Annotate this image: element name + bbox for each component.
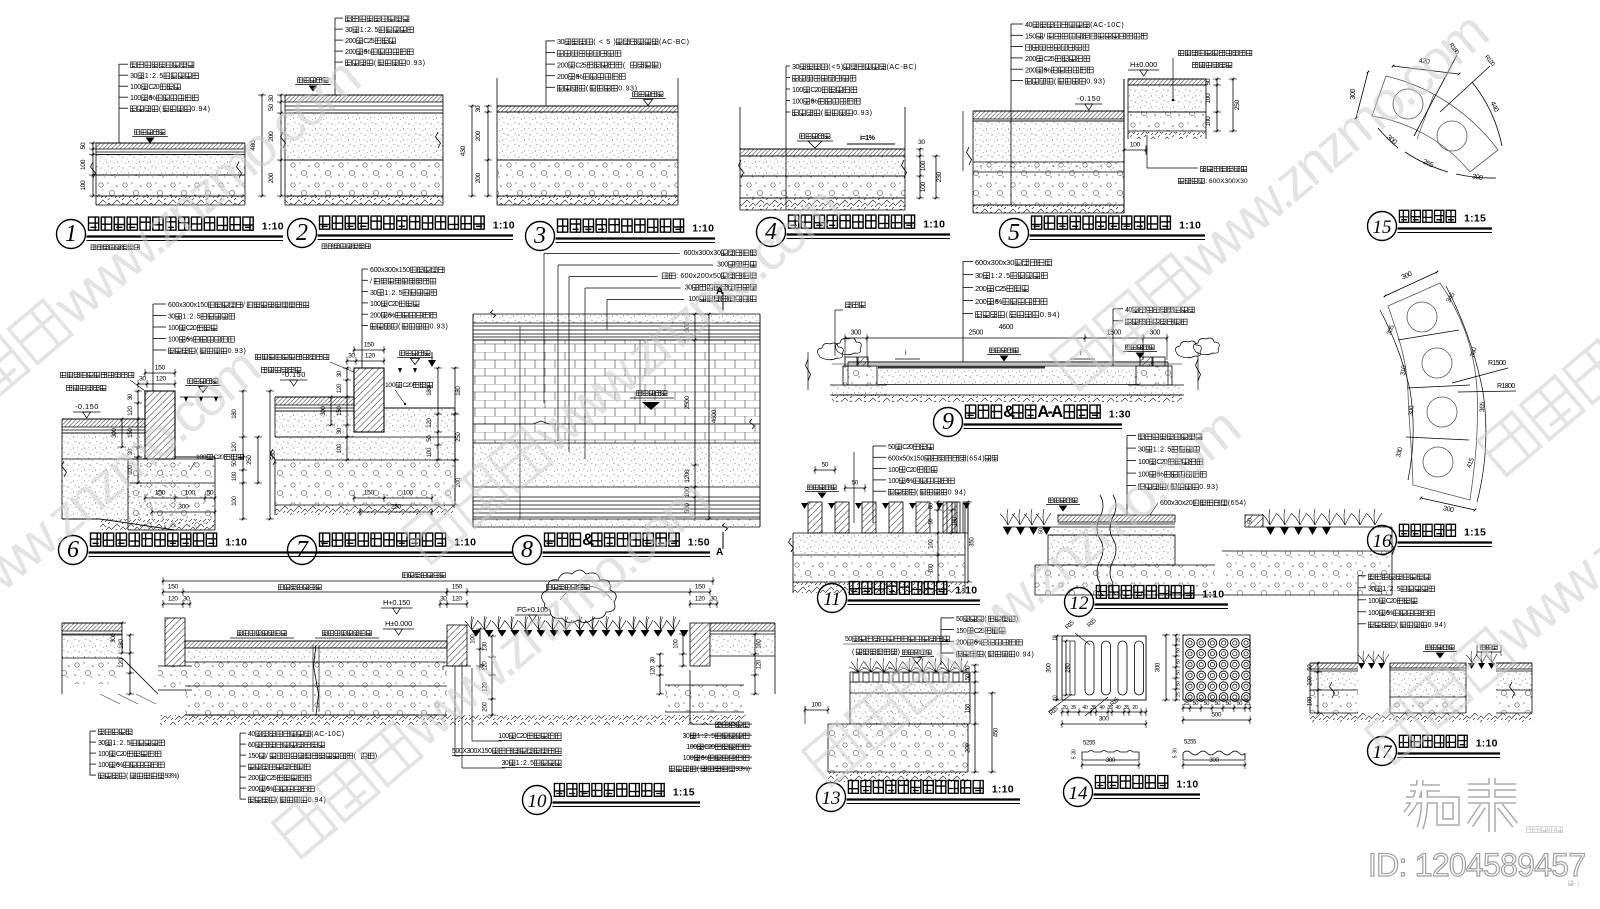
svg-text:100: 100	[792, 97, 803, 106]
svg-text:): )	[659, 60, 661, 69]
svg-text:200: 200	[345, 36, 356, 45]
svg-text:300: 300	[1045, 663, 1052, 673]
svg-text:1:10: 1:10	[692, 223, 714, 235]
svg-text:350: 350	[969, 537, 975, 547]
detail 7 right dim chains	[437, 368, 439, 460]
svg-text:50: 50	[845, 636, 852, 643]
svg-text:5: 5	[1172, 755, 1178, 758]
watermark logo bottom right	[1406, 778, 1516, 832]
detail 2 level marker	[298, 78, 303, 83]
svg-text:50: 50	[852, 480, 859, 487]
svg-text:13: 13	[822, 788, 841, 809]
detail 8 lower line band	[473, 496, 760, 498]
detail 10 road asphalt	[185, 641, 447, 648]
svg-text:(654): (654)	[966, 456, 984, 463]
svg-text:40: 40	[1082, 705, 1087, 711]
svg-text:0.94): 0.94)	[1040, 310, 1060, 319]
detail 7 right pavement	[384, 407, 455, 409]
svg-text:1:10: 1:10	[923, 219, 945, 231]
svg-text:1:2.5: 1:2.5	[1382, 586, 1400, 593]
detail 6 bottom dims	[145, 497, 215, 499]
detail 8 right dim chains	[694, 314, 696, 519]
svg-text:35: 35	[1124, 705, 1129, 711]
svg-text:200: 200	[248, 775, 259, 782]
svg-text:H+0.150: H+0.150	[383, 598, 410, 607]
detail 17 soil hatch	[1310, 713, 1532, 722]
svg-text:100: 100	[1306, 696, 1313, 706]
svg-text:120: 120	[426, 418, 433, 428]
svg-text:35: 35	[1071, 705, 1076, 711]
detail 9 level markers	[990, 348, 995, 353]
svg-text:1:15: 1:15	[1464, 213, 1486, 225]
svg-text:6%: 6%	[995, 297, 1003, 306]
svg-text:/: /	[243, 302, 245, 309]
detail 13 grass row	[849, 658, 866, 672]
title 15	[1368, 212, 1397, 241]
detail 2 label stack	[346, 16, 352, 22]
svg-text:100: 100	[385, 382, 396, 389]
svg-text:30: 30	[139, 376, 146, 383]
detail 8 sand band	[473, 443, 760, 487]
svg-text:1:15: 1:15	[1464, 527, 1486, 539]
detail 9 dim row	[845, 337, 1167, 339]
svg-text:-0.150: -0.150	[75, 402, 98, 411]
detail 10 left label stack	[99, 729, 105, 735]
title 10	[523, 786, 552, 815]
detail 17 right pavement	[1496, 663, 1532, 669]
detail 10 mid dim columns	[479, 629, 481, 666]
svg-text:3: 3	[533, 223, 546, 249]
detail 6 right dim chains	[242, 391, 244, 519]
svg-text:100: 100	[811, 702, 821, 709]
svg-text:C20: C20	[704, 744, 715, 751]
detail 5 note 同相邻饰面材料	[1201, 166, 1206, 171]
svg-text:200: 200	[1025, 65, 1036, 74]
svg-text:1:2.5: 1:2.5	[697, 733, 715, 740]
svg-text:50: 50	[1193, 701, 1199, 707]
svg-text:300: 300	[320, 406, 327, 416]
detail 16 drawing: 盲道大样二 curved band	[1388, 283, 1478, 500]
svg-text:H±0.000: H±0.000	[385, 619, 412, 628]
svg-text:300: 300	[1408, 405, 1416, 416]
svg-text:2500: 2500	[969, 330, 984, 337]
svg-text:0.93): 0.93)	[853, 108, 872, 117]
svg-text:150: 150	[364, 490, 375, 497]
svg-text:1:2.5: 1:2.5	[384, 290, 402, 297]
svg-text:50: 50	[822, 462, 829, 469]
detail 6 level marker with triangles	[188, 379, 193, 384]
svg-text:6%: 6%	[701, 755, 708, 762]
svg-text:50: 50	[231, 460, 238, 467]
svg-text:30: 30	[502, 760, 509, 767]
detail 15 cell circles	[1393, 89, 1423, 119]
svg-text:250: 250	[455, 432, 462, 442]
svg-text:5: 5	[1071, 756, 1077, 759]
detail 5 dimension chains	[1216, 79, 1218, 131]
detail 9 种植区 label	[846, 302, 852, 308]
detail 14 grooved tile plan	[1062, 636, 1146, 700]
detail 1 drawing: 人行平台及园路标准做法详图 section	[96, 143, 245, 149]
detail 12 labels	[1139, 434, 1145, 440]
svg-text:10: 10	[1052, 695, 1058, 700]
detail 7 left dim chain	[346, 368, 348, 437]
svg-text:120: 120	[756, 659, 762, 669]
detail 10 drainage slope labels	[237, 631, 242, 636]
svg-text:6%: 6%	[906, 478, 913, 485]
detail 12 vertical break	[1097, 495, 1116, 595]
svg-text:100: 100	[1368, 610, 1379, 617]
svg-text:30: 30	[557, 37, 565, 46]
svg-text:200: 200	[475, 130, 482, 141]
title 3	[526, 222, 555, 251]
svg-text:200: 200	[370, 312, 381, 319]
svg-text:A-A: A-A	[1037, 403, 1063, 421]
svg-text:A: A	[716, 547, 723, 558]
detail 9 base slabs	[830, 385, 887, 395]
detail 3 level marker	[633, 92, 638, 97]
title 14	[1064, 778, 1093, 807]
svg-text:C20: C20	[116, 751, 127, 758]
detail 10 top dim rows	[163, 580, 713, 582]
detail 15 lower arc dims	[1378, 128, 1398, 148]
svg-text:6%: 6%	[116, 762, 123, 769]
svg-text:50: 50	[426, 435, 433, 442]
svg-text:150: 150	[965, 703, 971, 713]
svg-text:1:10: 1:10	[1476, 738, 1498, 750]
svg-text:300: 300	[851, 330, 862, 337]
detail 14 dotted tile plan	[1183, 635, 1250, 700]
detail 9 right kerb blocks	[1140, 357, 1152, 366]
detail 16 cell dividers	[1398, 330, 1459, 340]
svg-text:25: 25	[1175, 692, 1181, 697]
svg-text:100: 100	[1205, 93, 1212, 104]
svg-text:1:2.5: 1:2.5	[991, 271, 1011, 280]
svg-text:0.93): 0.93)	[406, 58, 425, 67]
svg-text:160: 160	[756, 639, 762, 649]
title 11	[818, 584, 847, 613]
svg-text:30: 30	[98, 740, 105, 747]
svg-text:230: 230	[936, 171, 943, 182]
detail 10 kerb 1	[165, 618, 185, 666]
detail 7 drawing: 车行道与绿化交接大样 kerb section	[275, 397, 354, 405]
svg-text:30: 30	[792, 62, 800, 71]
svg-text:C20: C20	[402, 382, 413, 389]
svg-text:300: 300	[178, 504, 189, 511]
detail 6 kerb top dims	[145, 372, 175, 374]
detail 14 dotted tile dims	[1175, 635, 1177, 700]
detail 13 right dims	[974, 665, 976, 772]
svg-text:150: 150	[155, 365, 166, 372]
svg-text:6%: 6%	[810, 97, 818, 106]
svg-text:30: 30	[183, 596, 190, 603]
detail 7 bottom dims	[354, 497, 432, 499]
svg-text:6%: 6%	[575, 72, 583, 81]
svg-text:6%: 6%	[1386, 610, 1393, 617]
svg-text:30: 30	[918, 139, 925, 146]
detail 8 drawing: 慢跑径&园路标准平面图 plan	[473, 314, 760, 323]
svg-text:50: 50	[1215, 701, 1221, 707]
svg-text:1: 1	[65, 221, 77, 247]
svg-text:80: 80	[928, 502, 934, 509]
svg-text:-0.150: -0.150	[282, 370, 305, 379]
detail 7 kerb stone	[354, 368, 384, 432]
svg-text:200: 200	[1025, 54, 1036, 63]
svg-text:0.93): 0.93)	[430, 324, 448, 331]
detail 7 ground bands	[275, 460, 455, 505]
detail 1 label stack	[131, 62, 137, 68]
svg-text:14: 14	[1069, 783, 1089, 804]
watermark diagonal lines	[0, 44, 372, 441]
svg-text:6%: 6%	[266, 786, 273, 793]
svg-text:50: 50	[1247, 518, 1253, 524]
svg-text:600x300x150: 600x300x150	[370, 267, 410, 274]
svg-text:8: 8	[521, 537, 533, 563]
svg-text:30: 30	[345, 25, 353, 34]
svg-text:30: 30	[683, 733, 690, 740]
detail 17 left pavement	[1310, 663, 1358, 669]
svg-text:30: 30	[1172, 748, 1178, 753]
detail 10 right label stack	[716, 722, 722, 728]
detail 2 dimension chains	[280, 95, 282, 196]
svg-text:250: 250	[1234, 99, 1241, 110]
svg-text:1:2.5: 1:2.5	[112, 740, 130, 747]
svg-text:5255: 5255	[1083, 740, 1096, 746]
title 16	[1368, 526, 1397, 555]
svg-text:50: 50	[1038, 528, 1044, 534]
detail 9 soil line	[832, 395, 1182, 402]
svg-text:300: 300	[1106, 757, 1116, 764]
svg-text:30: 30	[336, 427, 343, 434]
svg-text:C20: C20	[810, 85, 821, 94]
svg-text:100: 100	[185, 490, 196, 497]
svg-text:100: 100	[888, 478, 899, 485]
svg-text:200: 200	[975, 284, 987, 293]
svg-text:40: 40	[1099, 705, 1104, 711]
detail 13 grass paver slots	[850, 671, 970, 673]
svg-text:120: 120	[336, 383, 343, 393]
detail 6 right lower pavement	[175, 456, 215, 458]
svg-text:C25: C25	[1043, 54, 1054, 63]
svg-text:C20: C20	[213, 454, 224, 461]
svg-text:0.94): 0.94)	[191, 104, 210, 113]
detail 14 groove profile	[1082, 751, 1139, 761]
title 4	[757, 218, 786, 247]
svg-text:280: 280	[1064, 663, 1071, 673]
title 17	[1368, 737, 1397, 766]
svg-text:100: 100	[1306, 676, 1313, 686]
svg-text:25: 25	[1184, 701, 1190, 707]
svg-text:1:2.5: 1:2.5	[145, 71, 164, 80]
svg-text:16: 16	[1373, 531, 1393, 552]
svg-text:50: 50	[1175, 670, 1181, 675]
svg-text:180: 180	[455, 386, 462, 396]
svg-text:100: 100	[336, 443, 343, 453]
svg-text:200: 200	[557, 60, 568, 69]
svg-text:100: 100	[80, 180, 87, 191]
detail 17 dims	[1317, 663, 1319, 713]
svg-text:150: 150	[1025, 31, 1036, 40]
svg-text:100: 100	[130, 82, 141, 91]
svg-text:250: 250	[246, 455, 253, 465]
detail 8 interior vertical joints	[519, 326, 521, 519]
svg-text:30: 30	[1071, 749, 1077, 754]
svg-text:100: 100	[928, 563, 934, 573]
svg-text:(AC-BC): (AC-BC)	[659, 37, 689, 46]
detail 10 right pavement	[710, 623, 775, 631]
detail 14 R15 leaders	[1064, 619, 1076, 631]
title 12	[1065, 588, 1094, 617]
detail 10 grass strip	[465, 616, 478, 630]
title 13	[817, 783, 846, 812]
detail 14 dots profile	[1183, 751, 1245, 760]
detail 9 planting bushes	[817, 343, 843, 360]
svg-text:120: 120	[452, 596, 462, 603]
svg-text:1:10: 1:10	[493, 220, 515, 232]
detail 7 kerb top dims	[354, 349, 384, 351]
svg-text:30: 30	[348, 353, 355, 360]
detail 17 right grass	[1466, 651, 1477, 663]
svg-text:30: 30	[440, 596, 447, 603]
svg-text:120: 120	[127, 406, 134, 416]
svg-text:93%): 93%)	[165, 773, 180, 780]
svg-text:1:15: 1:15	[673, 787, 695, 799]
svg-text:40: 40	[248, 731, 255, 738]
detail 12 slab	[1058, 515, 1175, 522]
svg-text:11: 11	[823, 589, 841, 610]
detail 5 drawing: 车行沥青与铺地交接大样 step section	[973, 111, 1124, 119]
svg-text:600x300x30: 600x300x30	[975, 258, 1015, 267]
detail 16 dim lines	[1385, 272, 1437, 296]
svg-text:120: 120	[695, 596, 705, 603]
detail 17 stepping stone slab	[1390, 663, 1466, 668]
svg-text:(AC-BC): (AC-BC)	[887, 62, 917, 71]
svg-text:ID: 1204589457: ID: 1204589457	[1368, 847, 1586, 883]
svg-text:150: 150	[155, 490, 166, 497]
detail 13 layers	[850, 682, 970, 693]
svg-text:50: 50	[928, 518, 934, 525]
svg-text:430: 430	[460, 145, 467, 156]
svg-text:300: 300	[110, 633, 117, 643]
svg-text:50: 50	[1175, 648, 1181, 653]
detail 15 dimension lines	[1393, 66, 1459, 74]
detail 4 drawing: 人行沥青标准做法详图 section	[740, 149, 905, 156]
svg-text:50: 50	[1204, 701, 1210, 707]
svg-text:150: 150	[336, 406, 343, 416]
svg-text:100: 100	[196, 454, 207, 461]
detail 10 left dim column	[129, 635, 131, 694]
svg-text:300: 300	[1154, 662, 1161, 672]
svg-text:1:2.5: 1:2.5	[516, 760, 534, 767]
detail 9 left kerb blocks	[845, 357, 857, 366]
svg-text:30: 30	[650, 656, 656, 663]
svg-text:0.93): 0.93)	[618, 84, 637, 93]
svg-text:50: 50	[1205, 78, 1212, 85]
detail 10 shrub outline	[542, 570, 617, 623]
svg-text:C20: C20	[148, 82, 159, 91]
svg-text:100: 100	[403, 490, 414, 497]
svg-text:100: 100	[920, 160, 927, 171]
detail 1 left dimension chain	[92, 143, 94, 196]
svg-text:C20: C20	[906, 467, 917, 474]
svg-text:1:10: 1:10	[225, 537, 247, 549]
svg-text:30: 30	[475, 105, 482, 112]
detail 12 right portion	[1245, 515, 1263, 527]
detail 9 pavement slab	[848, 361, 1168, 363]
svg-text:30: 30	[1368, 586, 1375, 593]
svg-text:120: 120	[156, 376, 167, 383]
svg-text:1:2.5: 1:2.5	[182, 314, 200, 321]
svg-text:100: 100	[1205, 116, 1212, 127]
detail 6 kerb stone (hatched)	[145, 391, 175, 459]
detail 10 kerb 3	[690, 623, 710, 666]
svg-text:(AC-10C): (AC-10C)	[1090, 20, 1124, 29]
detail 17 level markers	[1426, 645, 1431, 650]
svg-text:40: 40	[1025, 20, 1033, 29]
svg-text:-1: -1	[1574, 881, 1581, 887]
svg-text:C20: C20	[186, 325, 197, 332]
detail 10 soil hatch	[160, 715, 745, 725]
detail 6 kerb foundation	[128, 459, 215, 483]
svg-text:100: 100	[168, 337, 179, 344]
svg-text:100: 100	[231, 471, 238, 481]
svg-text:C20: C20	[1386, 598, 1397, 605]
svg-text:100: 100	[498, 733, 509, 740]
svg-text:35: 35	[1107, 705, 1112, 711]
detail 9 drawing: 慢跑径&园路A-A剖面图 wide section	[832, 363, 1182, 365]
svg-text:/: /	[266, 753, 268, 760]
svg-text:1:30: 1:30	[1109, 409, 1131, 421]
watermark 标准图详图 small text	[1527, 827, 1563, 833]
svg-text:120: 120	[650, 665, 656, 675]
svg-text:9: 9	[942, 409, 954, 435]
svg-text:6%: 6%	[148, 93, 156, 102]
detail 11 dims	[815, 469, 835, 471]
svg-text:10: 10	[528, 791, 548, 812]
svg-text:/: /	[370, 279, 372, 286]
svg-text:1:10: 1:10	[1176, 779, 1198, 791]
title 1	[57, 220, 86, 249]
svg-text:100: 100	[928, 539, 934, 549]
svg-text:100: 100	[888, 467, 899, 474]
svg-text:120: 120	[231, 442, 238, 452]
svg-text:50: 50	[80, 142, 87, 149]
svg-text:100: 100	[683, 755, 694, 762]
svg-text:100: 100	[168, 325, 179, 332]
svg-text:(<5): (<5)	[828, 62, 843, 71]
svg-text:600x300x150: 600x300x150	[168, 302, 208, 309]
svg-text:1:10: 1:10	[1202, 589, 1224, 601]
svg-text:25: 25	[1245, 701, 1251, 707]
svg-text:500X300X150: 500X300X150	[452, 748, 492, 755]
svg-text:50: 50	[1237, 701, 1243, 707]
detail 10 kerb 2	[447, 625, 467, 666]
svg-text:6%: 6%	[363, 47, 371, 56]
svg-text:150: 150	[248, 753, 259, 760]
svg-text:100: 100	[1130, 142, 1141, 149]
svg-text:450: 450	[993, 727, 999, 737]
svg-text:4600: 4600	[999, 324, 1014, 331]
detail 4 dimension chains	[919, 149, 921, 198]
svg-text:C20: C20	[388, 301, 399, 308]
title 7	[288, 536, 317, 565]
svg-text:30: 30	[370, 290, 377, 297]
svg-text:100: 100	[1368, 598, 1379, 605]
svg-text:35: 35	[1091, 705, 1096, 711]
svg-text:0.94): 0.94)	[1016, 651, 1034, 658]
title 9	[934, 408, 963, 437]
svg-text:190: 190	[952, 516, 958, 526]
detail 5 note 详见人行平台及园路做法	[1179, 50, 1184, 55]
